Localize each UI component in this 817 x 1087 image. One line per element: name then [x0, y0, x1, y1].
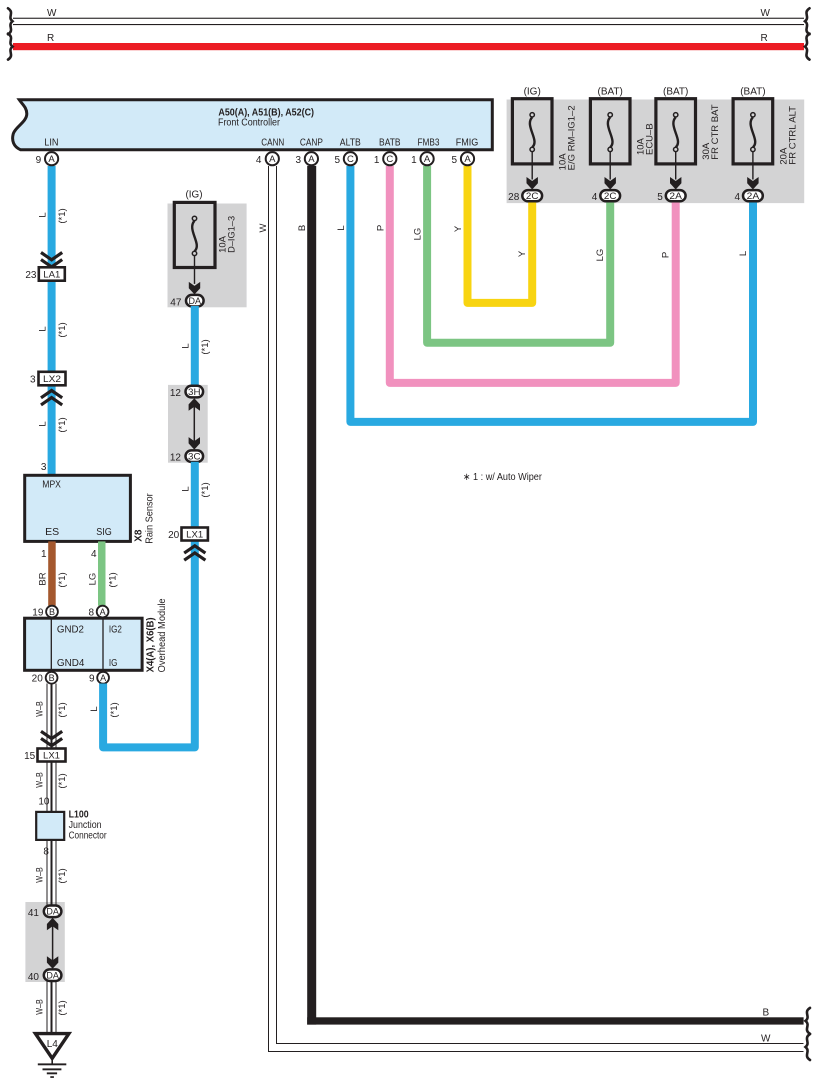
wire P BATB to fuse 2A [375, 166, 675, 383]
svg-text:W–B: W–B [35, 867, 46, 883]
pin 3 (A) CANP [295, 152, 318, 166]
chevron into LX1 pin 15 [41, 731, 62, 745]
svg-text:(*1): (*1) [200, 482, 211, 497]
gray panel connector pair 3H-3C [168, 385, 208, 463]
pin 5 (A) FMIG [452, 152, 475, 166]
fuse 30A FR CTR BAT [656, 87, 721, 190]
svg-text:W: W [258, 223, 269, 232]
svg-text:3: 3 [41, 462, 47, 473]
svg-text:5: 5 [452, 155, 458, 166]
svg-text:MPX: MPX [42, 480, 61, 491]
pin 9 (A) overhead [89, 672, 109, 685]
svg-text:B: B [49, 673, 55, 683]
svg-text:8: 8 [43, 846, 49, 857]
connector 2A pin 5 [657, 190, 685, 203]
svg-text:L: L [180, 486, 191, 491]
wire W CANN vertical and bottom run [258, 166, 804, 1052]
svg-text:L100: L100 [69, 810, 89, 821]
svg-text:ECU–B: ECU–B [645, 123, 656, 155]
connector 3H pin 12 [170, 386, 203, 399]
pin 1 (C) BATB [374, 152, 397, 166]
svg-text:B: B [49, 607, 55, 617]
svg-text:P: P [375, 225, 386, 231]
wire L 3C to LX1 [180, 462, 211, 528]
arrow pair DA41-DA40 [47, 918, 58, 969]
svg-text:FMB3: FMB3 [418, 137, 440, 148]
svg-text:1: 1 [41, 549, 47, 560]
svg-text:12: 12 [170, 388, 182, 399]
svg-text:L: L [738, 251, 749, 256]
svg-text:LX1: LX1 [43, 750, 60, 761]
svg-text:(*1): (*1) [57, 773, 68, 788]
svg-text:(BAT): (BAT) [663, 87, 688, 98]
svg-text:X4(A), X6(B): X4(A), X6(B) [146, 617, 157, 672]
svg-text:LA1: LA1 [43, 269, 60, 280]
svg-text:4: 4 [734, 192, 740, 203]
svg-text:LG: LG [595, 249, 606, 262]
connector 2C pin 4 [592, 190, 620, 203]
fuse 20A FR CTRL ALT [733, 87, 798, 190]
svg-text:(*1): (*1) [57, 572, 68, 587]
svg-text:(*1): (*1) [57, 1000, 68, 1015]
svg-text:B: B [763, 1007, 770, 1018]
svg-text:FR CTR BAT: FR CTR BAT [710, 104, 721, 159]
svg-text:GND4: GND4 [57, 658, 85, 669]
svg-text:ALTB: ALTB [340, 137, 361, 148]
wire LG FMB3 to fuse 2C [413, 166, 611, 343]
pin 4 (A) CANN [256, 152, 279, 166]
svg-text:Y: Y [517, 250, 528, 257]
svg-text:(BAT): (BAT) [740, 87, 765, 98]
connector DA pin 41 [28, 906, 62, 920]
pin 9 (A) LIN [36, 152, 59, 166]
svg-text:Y: Y [453, 225, 464, 232]
svg-text:28: 28 [508, 192, 520, 203]
svg-text:(IG): (IG) [186, 190, 203, 201]
svg-text:10: 10 [38, 796, 50, 807]
fuse 10A E/G RM-IG1-2 [512, 87, 577, 190]
svg-text:DA: DA [46, 907, 59, 918]
svg-text:W: W [761, 8, 771, 19]
svg-text:W–B: W–B [35, 701, 46, 717]
svg-text:FR CTRL ALT: FR CTRL ALT [787, 106, 798, 165]
svg-text:(IG): (IG) [524, 87, 541, 98]
connector 2C pin 28 [508, 190, 542, 203]
svg-text:(*1): (*1) [57, 322, 68, 337]
continuation brace B bottom right [806, 1008, 811, 1034]
svg-text:L: L [336, 225, 347, 230]
front controller A50(A), A51(B), A52(C) [13, 100, 493, 150]
svg-text:L: L [38, 212, 49, 217]
connector LX1 pin 20 [168, 528, 208, 542]
svg-text:20: 20 [32, 674, 44, 685]
continuation brace R top right [805, 34, 810, 60]
svg-text:A: A [48, 154, 55, 165]
svg-text:12: 12 [170, 453, 182, 464]
note w/ Auto Wiper [463, 472, 543, 483]
svg-text:Connector: Connector [69, 831, 108, 842]
svg-text:IG: IG [109, 658, 118, 669]
gray panel fuse block top right [507, 100, 805, 204]
fuse 10A D-IG1-3 [174, 190, 237, 295]
wire W-B segment 1 [35, 684, 69, 749]
svg-text:GND2: GND2 [57, 625, 84, 636]
svg-text:LG: LG [88, 573, 99, 586]
pin 5 (C) ALTB [334, 152, 357, 166]
pin 3 into MPX [41, 462, 47, 473]
pin 19 (B) [32, 606, 58, 619]
svg-text:X8: X8 [133, 529, 144, 542]
svg-text:Rain Sensor: Rain Sensor [144, 493, 155, 544]
pin 20 (B) [32, 672, 58, 685]
svg-text:LG: LG [413, 228, 424, 241]
connector LX1 pin 15 [24, 749, 65, 763]
svg-text:CANN: CANN [261, 137, 284, 148]
svg-text:20: 20 [168, 530, 180, 541]
connector 3C pin 12 [170, 450, 203, 463]
svg-text:R: R [761, 33, 768, 44]
svg-text:23: 23 [25, 270, 37, 281]
arrow pair 3H-3C [189, 398, 200, 449]
fuse 10A ECU-B [590, 87, 655, 190]
connector 2A pin 4 [734, 190, 762, 203]
svg-text:CANP: CANP [300, 137, 323, 148]
svg-text:A: A [424, 154, 431, 165]
svg-text:(*1): (*1) [57, 208, 68, 223]
svg-text:A: A [308, 154, 315, 165]
svg-text:40: 40 [28, 972, 40, 983]
svg-text:BATB: BATB [379, 137, 401, 148]
junction connector L100 [36, 810, 107, 842]
svg-text:2A: 2A [669, 191, 682, 202]
svg-text:3: 3 [295, 155, 301, 166]
svg-text:B: B [297, 225, 308, 231]
svg-text:1: 1 [411, 155, 417, 166]
svg-text:L: L [180, 343, 191, 348]
chevron below LX2 [41, 391, 62, 405]
svg-text:L4: L4 [47, 1039, 59, 1050]
wire W bus top [13, 8, 804, 25]
svg-text:SIG: SIG [96, 527, 112, 538]
wire BR rain sensor ES [38, 541, 69, 605]
continuation brace W top left [8, 8, 13, 34]
svg-text:L: L [38, 326, 49, 331]
svg-text:Junction: Junction [69, 820, 102, 831]
svg-text:15: 15 [24, 751, 36, 762]
chevron into LA1 [41, 253, 62, 267]
wire R bus top [13, 33, 804, 50]
svg-text:R: R [47, 33, 54, 44]
svg-text:DA: DA [189, 296, 202, 307]
pin 8 (A) [88, 606, 108, 619]
svg-text:DA: DA [46, 971, 59, 982]
svg-text:(*1): (*1) [107, 572, 118, 587]
connector DA pin 47 [170, 295, 203, 309]
wire L overhead IG to LX1 [89, 541, 195, 748]
svg-text:2C: 2C [604, 191, 617, 202]
continuation brace W bottom right [806, 1034, 811, 1060]
wire W-B segment 3 [35, 840, 69, 906]
svg-text:P: P [661, 252, 672, 258]
wire L LIN [38, 166, 69, 475]
svg-text:L: L [89, 706, 100, 711]
continuation brace R top left [8, 34, 13, 60]
svg-text:4: 4 [256, 155, 262, 166]
svg-text:ES: ES [45, 527, 59, 538]
svg-text:LIN: LIN [44, 137, 58, 148]
svg-text:C: C [386, 154, 393, 165]
overhead module X4(A), X6(B) [25, 598, 168, 672]
wire LG rain sensor SIG [88, 541, 119, 605]
rain sensor X8 MPX [25, 475, 156, 544]
svg-text:2A: 2A [747, 191, 760, 202]
svg-text:D–IG1–3: D–IG1–3 [226, 216, 237, 253]
svg-text:3H: 3H [188, 387, 201, 398]
svg-text:(BAT): (BAT) [598, 87, 623, 98]
svg-text:Front Controller: Front Controller [218, 117, 280, 129]
svg-text:4: 4 [592, 192, 598, 203]
svg-text:W: W [761, 1033, 771, 1044]
svg-text:(*1): (*1) [57, 417, 68, 432]
svg-text:1: 1 [374, 155, 380, 166]
wire L DA47 to 3H [180, 306, 211, 386]
svg-text:41: 41 [28, 908, 40, 919]
svg-text:LX1: LX1 [186, 529, 203, 540]
connector DA pin 40 [28, 969, 62, 982]
svg-text:3: 3 [30, 375, 36, 386]
svg-text:9: 9 [36, 155, 42, 166]
svg-text:9: 9 [89, 674, 95, 685]
svg-text:LX2: LX2 [43, 374, 61, 385]
svg-text:47: 47 [170, 298, 182, 309]
svg-text:A: A [464, 154, 471, 165]
svg-text:A: A [100, 673, 106, 683]
connector LA1 pin 23 [25, 267, 64, 281]
wire Y FMIG to fuse 2C [453, 166, 532, 303]
svg-text:∗ 1 : w/ Auto Wiper: ∗ 1 : w/ Auto Wiper [463, 472, 543, 483]
wire L ALTB to fuse 2A [336, 166, 753, 422]
svg-text:5: 5 [334, 155, 340, 166]
svg-text:BR: BR [38, 572, 49, 585]
wire B CANP vertical and bottom run [297, 166, 803, 1025]
svg-text:(*1): (*1) [57, 702, 68, 717]
gray panel connector pair DA41-DA40 [25, 902, 64, 982]
svg-text:C: C [347, 154, 354, 165]
svg-text:(*1): (*1) [57, 868, 68, 883]
svg-text:W: W [47, 8, 57, 19]
svg-text:Overhead Module: Overhead Module [157, 598, 168, 672]
svg-text:E/G RM–IG1–2: E/G RM–IG1–2 [567, 105, 578, 170]
wire W-B segment 4 [35, 981, 69, 1034]
svg-text:(*1): (*1) [109, 702, 120, 717]
chevron below LX1 pin 20 [184, 546, 205, 560]
svg-text:A: A [269, 154, 276, 165]
gray panel fuse D-IG1-3 [168, 204, 247, 308]
svg-text:5: 5 [657, 192, 663, 203]
svg-text:L: L [38, 421, 49, 426]
svg-text:3C: 3C [188, 452, 201, 463]
svg-text:FMIG: FMIG [456, 137, 479, 148]
svg-text:A: A [100, 607, 106, 617]
svg-text:4: 4 [91, 549, 97, 560]
svg-text:(*1): (*1) [200, 339, 211, 354]
svg-text:IG2: IG2 [109, 625, 122, 636]
svg-text:W–B: W–B [35, 999, 46, 1015]
wire W-B segment 2 [35, 762, 69, 812]
continuation brace W top right [805, 8, 810, 34]
svg-text:W–B: W–B [35, 772, 46, 788]
svg-text:2C: 2C [526, 191, 539, 202]
pin 1 (A) FMB3 [411, 152, 434, 166]
ground L4 [35, 1034, 69, 1078]
connector LX2 pin 3 [30, 372, 66, 386]
